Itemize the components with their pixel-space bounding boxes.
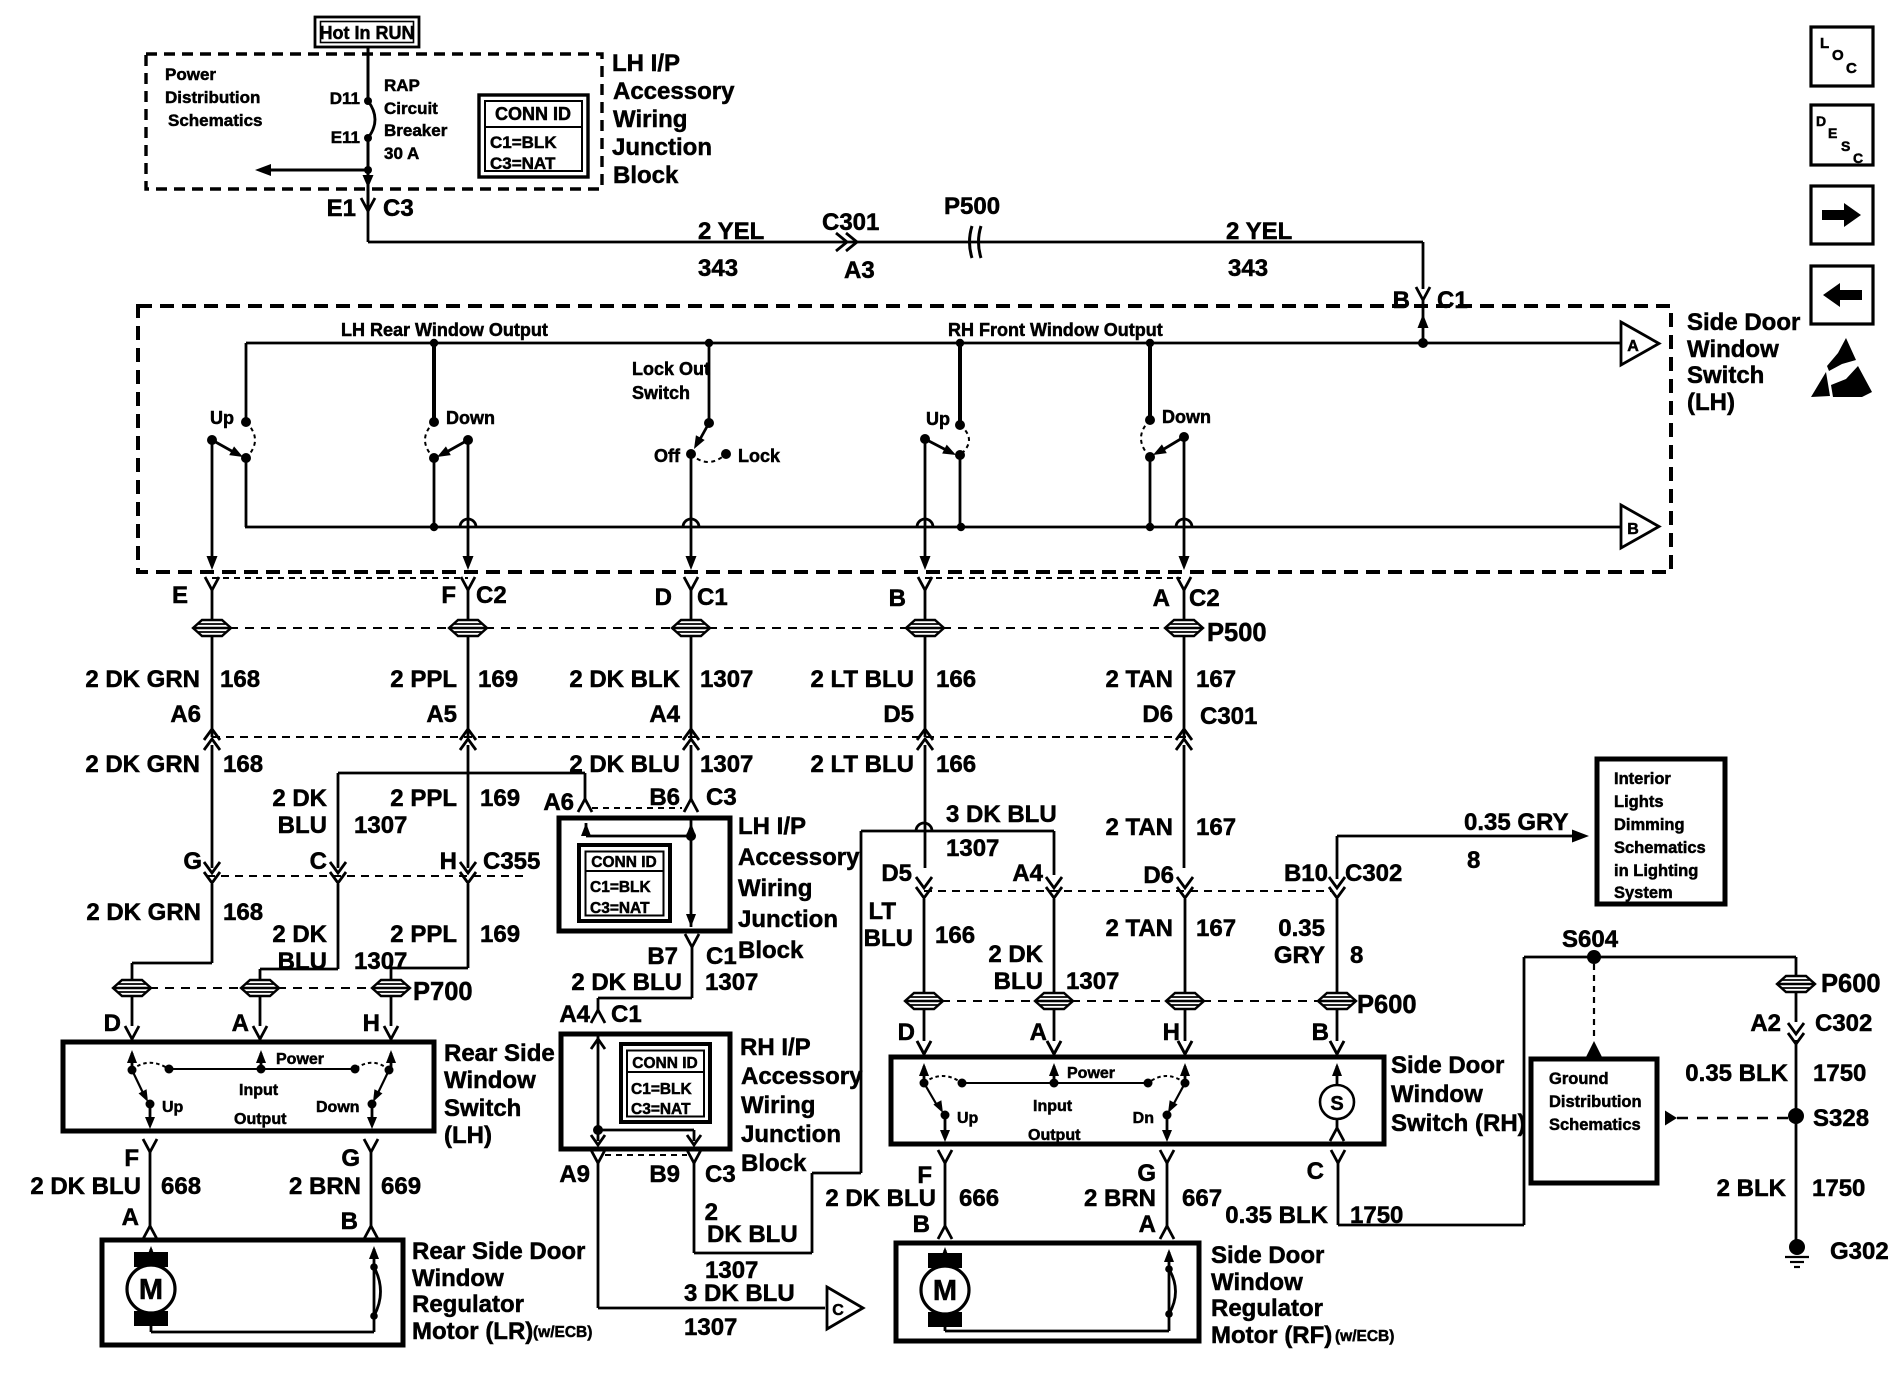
svg-text:BLU: BLU [278,812,327,839]
svg-text:C3: C3 [705,1161,736,1188]
svg-text:(LH): (LH) [444,1122,492,1149]
svg-text:Output: Output [1028,1127,1081,1144]
svg-text:G302: G302 [1830,1238,1889,1265]
svg-text:3 DK BLU: 3 DK BLU [684,1280,795,1307]
svg-text:2 PPL: 2 PPL [390,666,457,693]
svg-text:Power: Power [276,1051,324,1068]
svg-text:O: O [1832,47,1844,64]
svg-text:Wiring: Wiring [738,875,812,902]
svg-text:D6: D6 [1143,862,1174,889]
svg-text:166: 166 [935,922,975,949]
svg-text:Switch: Switch [444,1095,521,1122]
svg-text:G: G [183,848,202,875]
svg-text:Up: Up [957,1110,979,1127]
svg-text:Distribution: Distribution [165,88,260,107]
svg-text:Circuit: Circuit [384,99,438,118]
svg-text:668: 668 [161,1173,201,1200]
svg-text:Accessory: Accessory [613,78,735,105]
svg-text:Up: Up [210,408,234,428]
svg-text:H: H [363,1010,380,1037]
svg-text:DK BLU: DK BLU [707,1221,798,1248]
svg-text:A: A [1627,338,1639,355]
svg-text:S: S [1841,138,1850,154]
svg-text:2 DK GRN: 2 DK GRN [85,666,200,693]
svg-text:C: C [1846,60,1857,77]
svg-text:Off: Off [654,446,681,466]
svg-text:G: G [1137,1160,1156,1187]
svg-text:2 DK GRN: 2 DK GRN [85,751,200,778]
svg-text:S604: S604 [1562,926,1619,953]
svg-text:Lock: Lock [738,446,781,466]
svg-text:Window: Window [1687,336,1779,363]
svg-text:Breaker: Breaker [384,121,448,140]
svg-text:C1: C1 [1437,287,1468,314]
svg-text:B: B [889,585,906,612]
svg-text:2 TAN: 2 TAN [1105,666,1173,693]
svg-text:2 DK BLU: 2 DK BLU [569,751,680,778]
svg-text:Ground: Ground [1549,1070,1609,1088]
svg-text:2 TAN: 2 TAN [1105,814,1173,841]
svg-text:Block: Block [741,1150,807,1177]
svg-text:2 DK: 2 DK [272,921,327,948]
svg-text:C302: C302 [1815,1010,1872,1037]
svg-text:Junction: Junction [612,134,712,161]
svg-text:C3=NAT: C3=NAT [631,1101,691,1118]
svg-text:S328: S328 [1813,1105,1869,1132]
svg-text:2 BRN: 2 BRN [1084,1185,1156,1212]
svg-text:D: D [655,584,672,611]
svg-text:B6: B6 [649,784,680,811]
svg-text:2 DK BLU: 2 DK BLU [30,1173,141,1200]
svg-text:C302: C302 [1345,860,1402,887]
svg-text:Lights: Lights [1614,793,1664,811]
svg-text:D6: D6 [1142,701,1173,728]
svg-text:C1: C1 [611,1001,642,1028]
svg-text:Regulator: Regulator [1211,1295,1323,1322]
svg-text:P600: P600 [1357,991,1417,1019]
svg-text:(w/ECB): (w/ECB) [1335,1328,1394,1345]
svg-text:Down: Down [316,1099,360,1116]
svg-text:A3: A3 [844,257,875,284]
svg-text:Junction: Junction [738,906,838,933]
svg-text:Input: Input [1033,1098,1073,1115]
svg-text:Schematics: Schematics [168,111,263,130]
svg-text:2 LT BLU: 2 LT BLU [810,666,914,693]
svg-text:1307: 1307 [684,1314,737,1341]
svg-text:1307: 1307 [705,1257,758,1284]
svg-text:System: System [1614,884,1673,902]
svg-text:1750: 1750 [1813,1060,1866,1087]
svg-text:C301: C301 [1200,703,1257,730]
svg-text:BLU: BLU [994,968,1043,995]
svg-text:166: 166 [936,751,976,778]
svg-text:F: F [441,582,456,609]
svg-text:(LH): (LH) [1687,389,1735,416]
svg-text:S: S [1330,1093,1343,1115]
svg-text:Down: Down [446,408,495,428]
svg-text:Dn: Dn [1133,1110,1154,1127]
svg-text:Side Door: Side Door [1687,309,1800,336]
svg-text:LH I/P: LH I/P [738,813,806,840]
svg-text:C: C [1307,1158,1324,1185]
svg-text:CONN ID: CONN ID [591,854,656,871]
svg-text:1307: 1307 [700,666,753,693]
svg-text:Junction: Junction [741,1121,841,1148]
svg-text:B: B [341,1208,358,1235]
svg-text:RAP: RAP [384,76,420,95]
svg-text:P700: P700 [413,978,473,1006]
svg-text:168: 168 [220,666,260,693]
svg-text:C1: C1 [706,943,737,970]
svg-text:Power: Power [165,65,216,84]
svg-text:A6: A6 [543,789,574,816]
svg-text:169: 169 [478,666,518,693]
svg-text:Side Door: Side Door [1391,1052,1504,1079]
svg-text:C301: C301 [822,209,879,236]
svg-text:Wiring: Wiring [613,106,687,133]
svg-text:167: 167 [1196,666,1236,693]
svg-text:D11: D11 [330,89,360,108]
svg-text:C2: C2 [1189,585,1220,612]
svg-text:G: G [341,1145,360,1172]
svg-text:A9: A9 [559,1161,590,1188]
svg-text:343: 343 [1228,255,1268,282]
svg-text:166: 166 [936,666,976,693]
svg-text:M: M [139,1274,163,1306]
svg-text:2 DK BLK: 2 DK BLK [569,666,680,693]
svg-text:669: 669 [381,1173,421,1200]
svg-text:2 YEL: 2 YEL [1226,218,1292,245]
svg-text:Up: Up [926,409,950,429]
svg-text:LH Rear Window Output: LH Rear Window Output [341,320,548,340]
svg-text:B9: B9 [649,1161,680,1188]
svg-text:2 LT BLU: 2 LT BLU [810,751,914,778]
svg-text:D: D [898,1019,915,1046]
svg-text:F: F [124,1145,139,1172]
svg-text:343: 343 [698,255,738,282]
svg-text:169: 169 [480,785,520,812]
svg-text:A4: A4 [1012,860,1043,887]
svg-text:C3: C3 [383,195,414,222]
svg-text:B: B [1627,521,1639,538]
svg-text:Switch: Switch [632,383,690,403]
svg-text:2 DK: 2 DK [988,941,1043,968]
svg-text:2 DK GRN: 2 DK GRN [86,899,201,926]
svg-text:167: 167 [1196,915,1236,942]
svg-text:Window: Window [1391,1081,1483,1108]
svg-text:C: C [310,848,327,875]
svg-text:B7: B7 [647,943,678,970]
svg-text:A4: A4 [559,1001,590,1028]
svg-text:Block: Block [613,162,679,189]
svg-text:H: H [440,848,457,875]
svg-text:Motor (LR): Motor (LR) [412,1318,533,1345]
svg-text:Switch (RH): Switch (RH) [1391,1110,1526,1137]
svg-text:30 A: 30 A [384,144,419,163]
svg-text:LT: LT [868,898,896,925]
svg-text:Regulator: Regulator [412,1291,524,1318]
svg-text:667: 667 [1182,1185,1222,1212]
svg-text:B: B [1312,1019,1329,1046]
svg-text:M: M [933,1275,957,1307]
svg-text:RH I/P: RH I/P [740,1034,811,1061]
svg-text:Side Door: Side Door [1211,1242,1324,1269]
svg-text:A: A [232,1010,249,1037]
svg-text:LH I/P: LH I/P [612,50,680,77]
svg-text:C3: C3 [706,784,737,811]
svg-text:C3=NAT: C3=NAT [490,154,556,173]
svg-text:B: B [1393,287,1410,314]
svg-text:2 DK BLU: 2 DK BLU [571,969,682,996]
svg-text:D5: D5 [881,860,912,887]
svg-text:1307: 1307 [700,751,753,778]
svg-text:B: B [913,1211,930,1238]
svg-text:BLU: BLU [278,948,327,975]
svg-text:Down: Down [1162,407,1211,427]
svg-text:168: 168 [223,751,263,778]
svg-text:Accessory: Accessory [738,844,860,871]
svg-text:167: 167 [1196,814,1236,841]
svg-text:2 PPL: 2 PPL [390,921,457,948]
svg-text:BLU: BLU [864,925,913,952]
svg-text:D: D [1816,113,1826,129]
svg-text:(w/ECB): (w/ECB) [533,1324,592,1341]
svg-text:C1=BLK: C1=BLK [590,879,652,896]
svg-text:in Lighting: in Lighting [1614,862,1698,880]
svg-text:P500: P500 [944,193,1000,220]
svg-text:2 DK BLU: 2 DK BLU [825,1185,936,1212]
svg-text:D: D [104,1010,121,1037]
svg-text:Motor (RF): Motor (RF) [1211,1322,1332,1349]
svg-text:E11: E11 [331,128,360,147]
svg-text:Rear Side Door: Rear Side Door [412,1238,585,1265]
svg-text:Dimming: Dimming [1614,816,1685,834]
svg-text:Hot In RUN: Hot In RUN [320,23,415,43]
svg-text:1307: 1307 [946,835,999,862]
svg-text:Power: Power [1067,1065,1115,1082]
svg-text:E1: E1 [327,195,356,222]
svg-text:1307: 1307 [354,812,407,839]
svg-text:Interior: Interior [1614,770,1671,788]
svg-text:Window: Window [412,1265,504,1292]
svg-text:1307: 1307 [1066,968,1119,995]
svg-text:Switch: Switch [1687,362,1764,389]
svg-text:A: A [1139,1211,1156,1238]
svg-text:CONN ID: CONN ID [495,104,571,124]
svg-text:A6: A6 [170,701,201,728]
svg-text:C2: C2 [476,582,507,609]
svg-text:A5: A5 [426,701,457,728]
svg-text:B10: B10 [1284,860,1328,887]
svg-text:C1=BLK: C1=BLK [490,133,557,152]
svg-text:C355: C355 [483,848,540,875]
svg-text:RH Front Window Output: RH Front Window Output [948,320,1163,340]
svg-text:Lock Out: Lock Out [632,359,710,379]
svg-text:C: C [1853,150,1863,166]
svg-text:Distribution: Distribution [1549,1093,1642,1111]
svg-text:P600: P600 [1821,970,1881,998]
svg-text:L: L [1820,35,1829,52]
svg-text:CONN ID: CONN ID [632,1055,697,1072]
svg-text:0.35 BLK: 0.35 BLK [1225,1202,1328,1229]
svg-text:Wiring: Wiring [741,1092,815,1119]
svg-text:D5: D5 [883,701,914,728]
svg-text:A: A [1153,585,1170,612]
svg-text:1307: 1307 [705,969,758,996]
svg-text:Up: Up [162,1099,184,1116]
svg-text:A: A [1030,1019,1047,1046]
svg-text:2 BRN: 2 BRN [289,1173,361,1200]
svg-text:0.35 BLK: 0.35 BLK [1685,1060,1788,1087]
svg-text:P500: P500 [1207,619,1267,647]
svg-text:Schematics: Schematics [1614,839,1706,857]
svg-text:2 YEL: 2 YEL [698,218,764,245]
svg-text:1750: 1750 [1350,1202,1403,1229]
svg-text:8: 8 [1350,942,1363,969]
svg-text:0.35: 0.35 [1278,915,1325,942]
svg-text:C1=BLK: C1=BLK [631,1081,693,1098]
svg-text:8: 8 [1467,847,1480,874]
svg-text:1750: 1750 [1812,1175,1865,1202]
svg-text:Window: Window [444,1067,536,1094]
svg-text:Output: Output [234,1111,287,1128]
svg-text:2 PPL: 2 PPL [390,785,457,812]
svg-text:E: E [172,582,188,609]
svg-text:Window: Window [1211,1269,1303,1296]
svg-text:3 DK BLU: 3 DK BLU [946,801,1057,828]
svg-text:Rear Side: Rear Side [444,1040,555,1067]
svg-text:C1: C1 [697,584,728,611]
svg-text:1307: 1307 [354,948,407,975]
svg-text:Schematics: Schematics [1549,1116,1641,1134]
svg-text:666: 666 [959,1185,999,1212]
svg-text:2 BLK: 2 BLK [1717,1175,1787,1202]
svg-text:A2: A2 [1750,1010,1781,1037]
svg-text:Accessory: Accessory [741,1063,863,1090]
svg-text:A: A [122,1204,139,1231]
svg-text:A4: A4 [649,701,680,728]
svg-text:168: 168 [223,899,263,926]
svg-text:2 TAN: 2 TAN [1105,915,1173,942]
svg-text:Input: Input [239,1082,279,1099]
svg-text:Block: Block [738,937,804,964]
svg-text:169: 169 [480,921,520,948]
svg-text:E: E [1828,125,1837,141]
svg-text:C: C [832,1302,844,1319]
svg-text:GRY: GRY [1274,942,1325,969]
svg-text:0.35 GRY: 0.35 GRY [1464,809,1569,836]
svg-text:C3=NAT: C3=NAT [590,900,650,917]
svg-text:2 DK: 2 DK [272,785,327,812]
